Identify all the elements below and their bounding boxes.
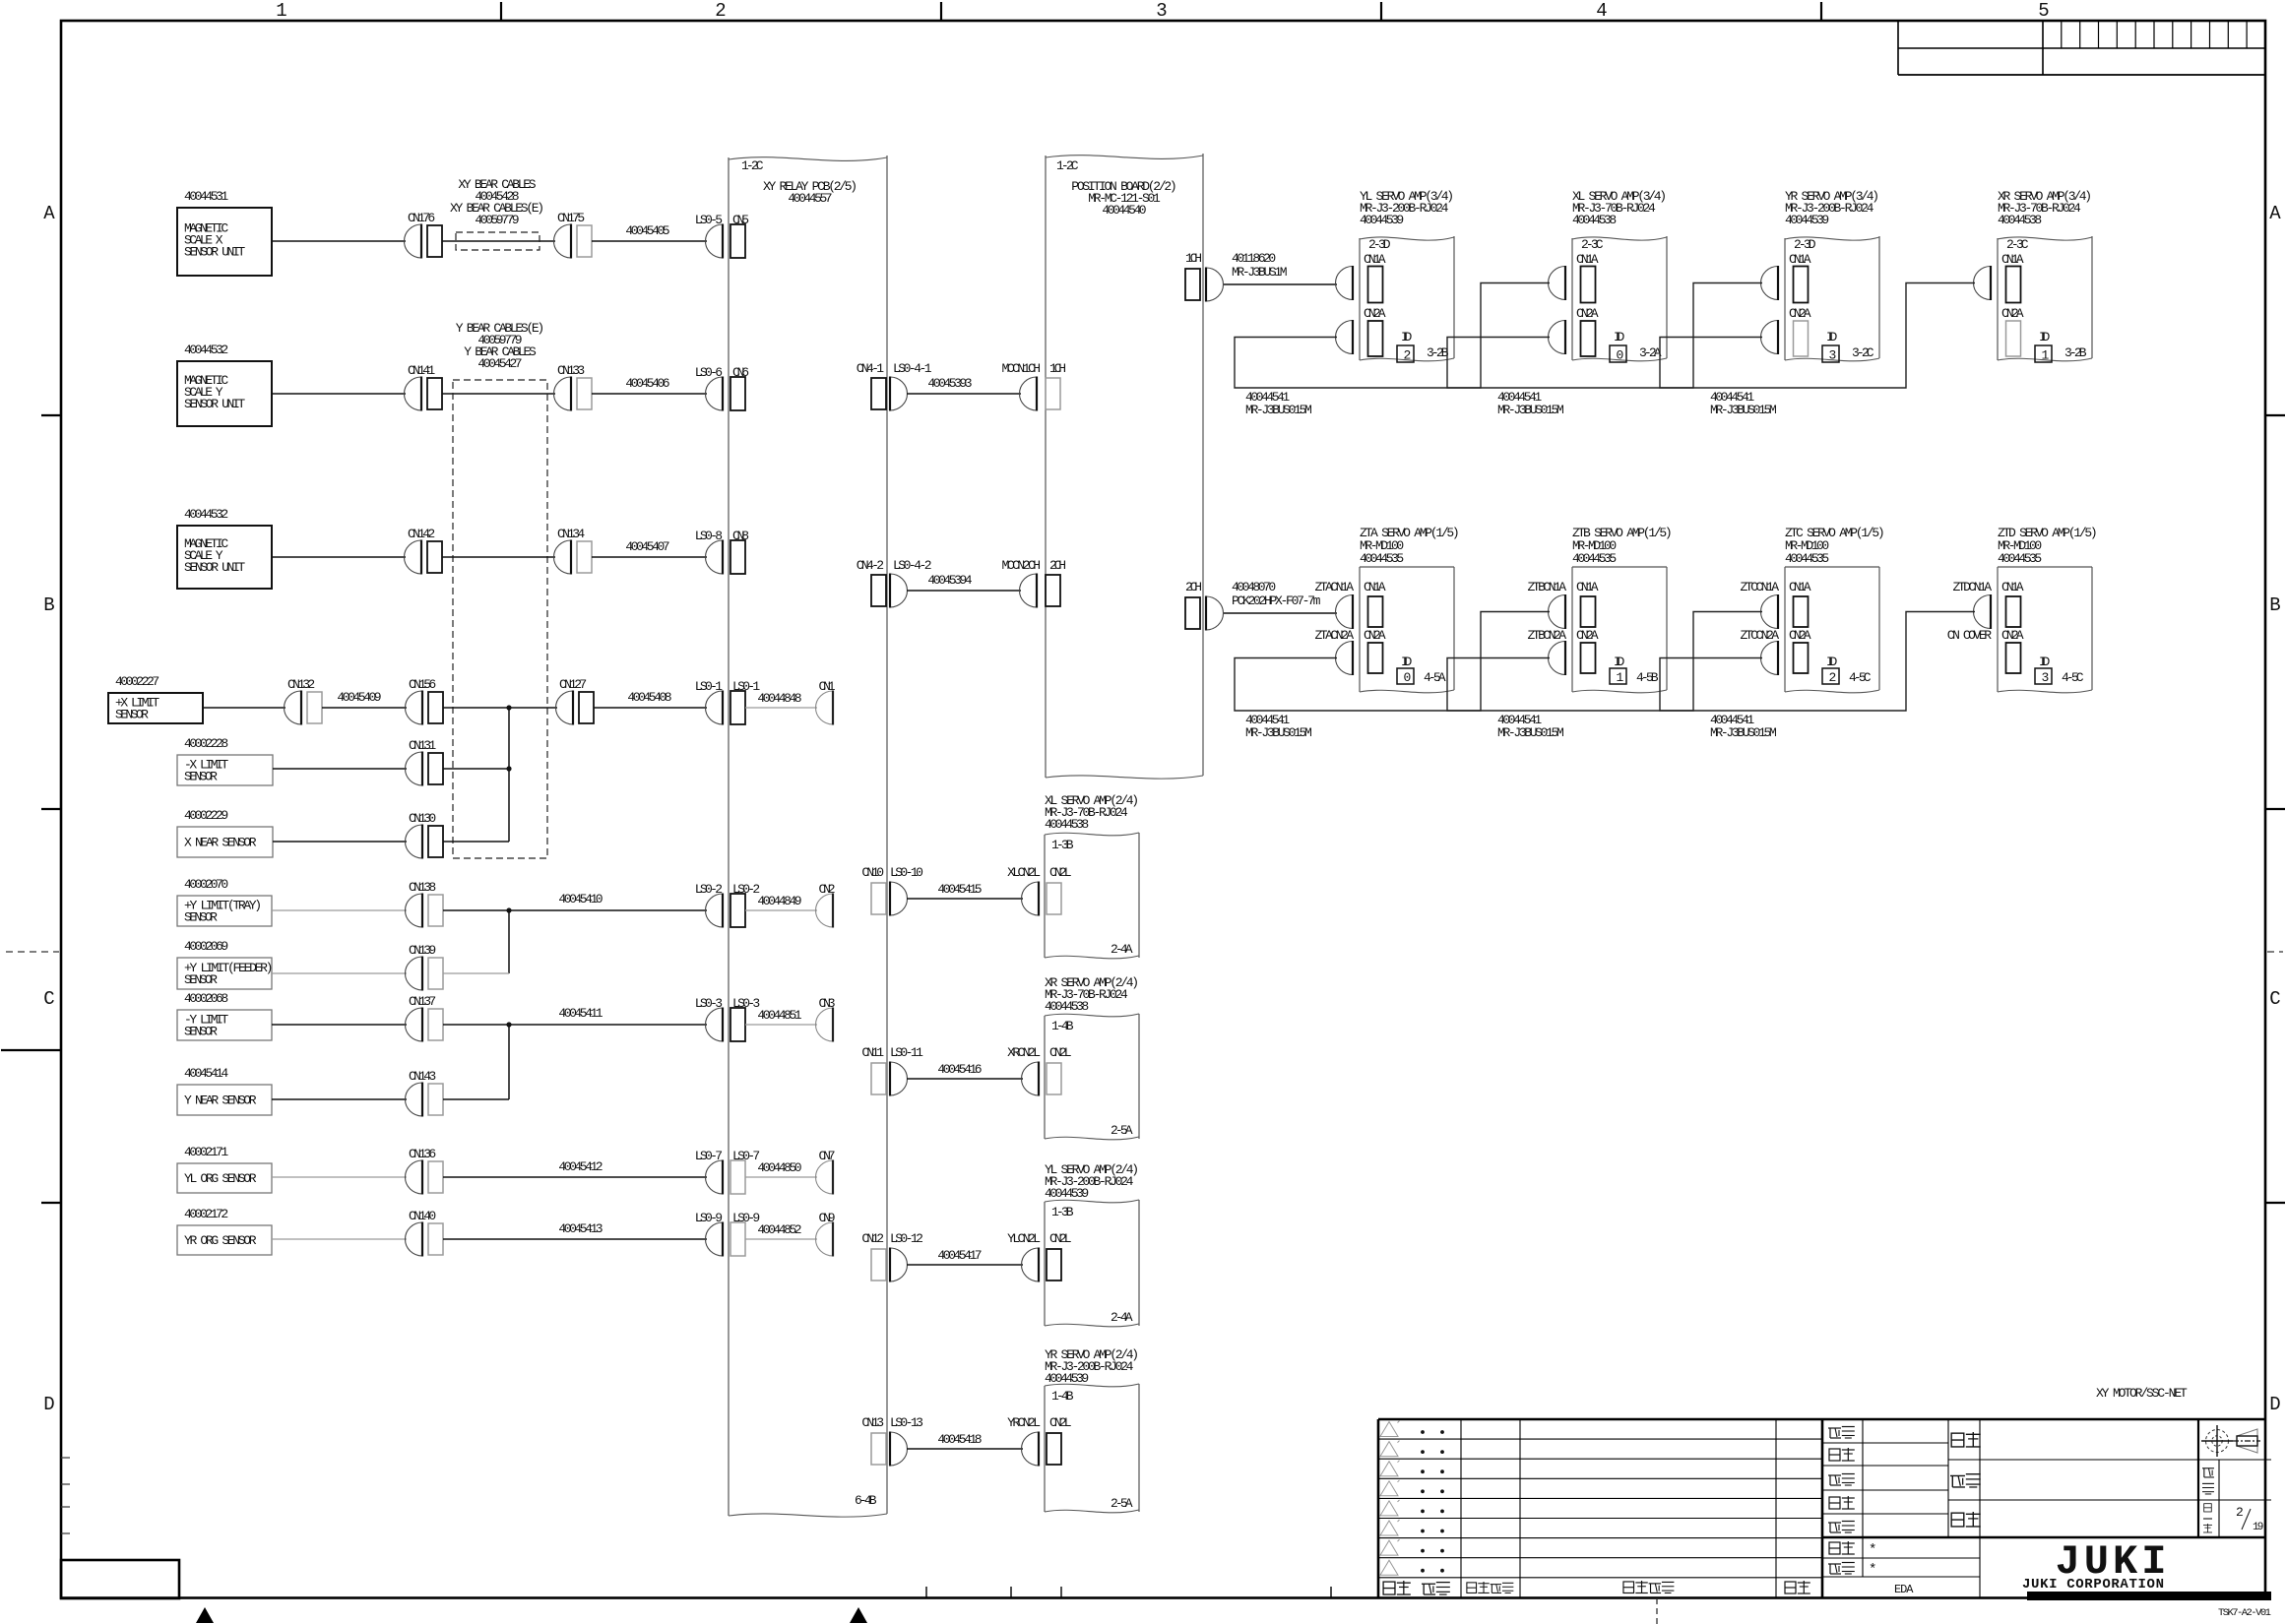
svg-text:D: D bbox=[2269, 1394, 2280, 1415]
svg-text:CN1A: CN1A bbox=[1364, 580, 1386, 594]
svg-text:LS0-4-2: LS0-4-2 bbox=[893, 558, 932, 573]
revision triangle row 2 bbox=[1380, 1442, 1398, 1457]
bottom fold dashed line bbox=[1656, 1598, 1658, 1624]
svg-text:3-2C: 3-2C bbox=[1852, 345, 1874, 360]
svg-text:40044538: 40044538 bbox=[1045, 817, 1089, 832]
svg-text:CN176: CN176 bbox=[408, 211, 435, 225]
svg-text:40045405: 40045405 bbox=[625, 223, 669, 238]
svg-text:C: C bbox=[43, 988, 54, 1010]
wire +Y feeder to CN139 bbox=[272, 972, 407, 974]
svg-text:40044539: 40044539 bbox=[1045, 1186, 1089, 1201]
wire scaleY to CN141 bbox=[272, 393, 406, 395]
svg-text:MR-J3BUS015M: MR-J3BUS015M bbox=[1497, 725, 1564, 740]
svg-text:40045393: 40045393 bbox=[927, 376, 972, 391]
svg-text:CN4-2: CN4-2 bbox=[857, 558, 884, 573]
svg-text:LS0-10: LS0-10 bbox=[890, 865, 923, 880]
svg-text:CN2L: CN2L bbox=[1049, 1045, 1072, 1060]
svg-text:CN2L: CN2L bbox=[1049, 865, 1072, 880]
svg-text:ID: ID bbox=[2039, 655, 2050, 669]
bottom centring triangle middle bbox=[850, 1607, 867, 1623]
svg-text:B: B bbox=[2269, 594, 2280, 616]
svg-text:CN139: CN139 bbox=[409, 943, 436, 958]
svg-text:ZTBCN1A: ZTBCN1A bbox=[1528, 580, 1567, 594]
svg-text:40044539: 40044539 bbox=[1360, 213, 1404, 227]
svg-text:40045415: 40045415 bbox=[937, 882, 982, 897]
svg-text:TSK7-A2-V01: TSK7-A2-V01 bbox=[2218, 1607, 2271, 1619]
junction -Y row bbox=[506, 1022, 511, 1027]
title block outline bbox=[1378, 1418, 2265, 1421]
revision triangle row 1 bbox=[1380, 1422, 1398, 1437]
svg-text:CN132: CN132 bbox=[287, 677, 315, 692]
svg-text:CN2L: CN2L bbox=[1049, 1231, 1072, 1246]
header henkou bangou bbox=[1467, 1583, 1477, 1593]
svg-text:CN142: CN142 bbox=[408, 527, 435, 541]
svg-text:40045412: 40045412 bbox=[558, 1159, 603, 1174]
wire LS0-1 to CN1 40044848 bbox=[745, 707, 817, 709]
svg-text:1CH: 1CH bbox=[1185, 251, 1202, 266]
wire CN141 to CN133 bbox=[442, 393, 555, 395]
svg-text:40045406: 40045406 bbox=[625, 376, 669, 391]
wire LS0-4-1 to MCCN1CH 40045393 bbox=[907, 393, 1021, 395]
svg-text:2-3D: 2-3D bbox=[1368, 237, 1391, 252]
top zone ticks bbox=[500, 2, 502, 21]
label katashiki bbox=[1951, 1433, 1964, 1447]
svg-text:CN10: CN10 bbox=[861, 865, 884, 880]
svg-text:CN1A: CN1A bbox=[1576, 252, 1599, 267]
wire +X limit to CN132 bbox=[203, 707, 286, 709]
page label peji bbox=[2204, 1504, 2212, 1512]
wire YR org to CN140 bbox=[272, 1238, 407, 1240]
svg-text:40044538: 40044538 bbox=[1045, 999, 1089, 1014]
svg-text:D: D bbox=[43, 1394, 54, 1415]
svg-text:40045407: 40045407 bbox=[625, 539, 669, 554]
bottom small ticks bbox=[925, 1587, 927, 1597]
svg-text:X NEAR SENSOR: X NEAR SENSOR bbox=[184, 836, 257, 850]
svg-text:YLCN2L: YLCN2L bbox=[1007, 1231, 1041, 1246]
svg-text:6-4B: 6-4B bbox=[855, 1493, 877, 1508]
approval row label 2 bbox=[1829, 1449, 1840, 1461]
wire YL org to CN136 bbox=[272, 1176, 407, 1178]
svg-text:40044535: 40044535 bbox=[1785, 551, 1829, 566]
svg-text:CN2A: CN2A bbox=[1576, 306, 1599, 321]
svg-text:SENSOR: SENSOR bbox=[184, 770, 218, 784]
svg-text:*: * bbox=[1869, 1562, 1876, 1578]
svg-text:MCCN1CH: MCCN1CH bbox=[1002, 361, 1042, 376]
svg-text:ZTBCN2A: ZTBCN2A bbox=[1528, 628, 1567, 643]
junction +Y row bbox=[506, 907, 511, 912]
svg-text:40045417: 40045417 bbox=[937, 1248, 982, 1263]
svg-text:40045410: 40045410 bbox=[558, 892, 603, 906]
JUKI black bar bbox=[2027, 1592, 2271, 1600]
svg-text:3-2B: 3-2B bbox=[2064, 345, 2087, 360]
info table katashiki/hinban/hinmei bbox=[1948, 1459, 2271, 1461]
svg-text:CN1A: CN1A bbox=[1789, 252, 1811, 267]
svg-text:LS0-11: LS0-11 bbox=[890, 1045, 923, 1060]
svg-text:4-5C: 4-5C bbox=[1849, 670, 1872, 685]
revision triangle row 7 bbox=[1380, 1540, 1398, 1555]
svg-text:40044557: 40044557 bbox=[788, 191, 832, 206]
svg-text:ID: ID bbox=[1826, 330, 1837, 344]
svg-text:CN134: CN134 bbox=[557, 527, 585, 541]
svg-text:0: 0 bbox=[1404, 670, 1412, 685]
svg-text:C: C bbox=[2269, 988, 2280, 1010]
panel XL SERVO AMP(2/4) bbox=[1045, 833, 1139, 836]
approval row label 6 bbox=[1829, 1542, 1840, 1554]
wire 1CH to YL CN1A 40118620 MR-J3BUS1M bbox=[1224, 283, 1337, 285]
wire CN142 to CN134 bbox=[442, 556, 555, 558]
svg-text:CN12: CN12 bbox=[861, 1231, 884, 1246]
divider scale labels bbox=[2218, 1460, 2220, 1537]
svg-text:40045416: 40045416 bbox=[937, 1062, 982, 1077]
wire LS0-2 to CN2 40044849 bbox=[745, 909, 817, 911]
svg-text:4-5B: 4-5B bbox=[1636, 670, 1659, 685]
svg-text:1: 1 bbox=[276, 0, 286, 22]
svg-text:ID: ID bbox=[1826, 655, 1837, 669]
wire -Y limit to CN137 bbox=[272, 1024, 407, 1026]
thick divider above hokan row bbox=[1822, 1536, 2265, 1538]
svg-text:Y NEAR SENSOR: Y NEAR SENSOR bbox=[184, 1093, 257, 1108]
svg-text:1-4B: 1-4B bbox=[1051, 1389, 1074, 1404]
left zone ticks bbox=[41, 414, 61, 416]
svg-text:CN2A: CN2A bbox=[1789, 306, 1811, 321]
svg-text:LS0-4-1: LS0-4-1 bbox=[893, 361, 932, 376]
divider after katashiki labels bbox=[1979, 1419, 1981, 1597]
svg-text:4-5C: 4-5C bbox=[2062, 670, 2084, 685]
svg-text:3: 3 bbox=[2042, 670, 2050, 685]
bus wire XL CN2A to YR CN1A 40044541 MR-J3BUS015M bbox=[1447, 283, 1762, 389]
dashed cable box XY BEAR CABLES bbox=[456, 232, 540, 250]
approval col divider bbox=[1862, 1419, 1864, 1577]
divider before scale cell bbox=[2197, 1419, 2199, 1537]
panel YL SERVO AMP(2/4) bbox=[1045, 1200, 1139, 1203]
svg-text:CN138: CN138 bbox=[409, 880, 436, 895]
approval table bbox=[1822, 1442, 1948, 1444]
svg-text:0: 0 bbox=[1617, 348, 1624, 363]
revision triangle row 5 bbox=[1380, 1501, 1398, 1516]
svg-text:2-4A: 2-4A bbox=[1111, 1310, 1133, 1325]
revision col divider 2 bbox=[1519, 1419, 1521, 1597]
svg-text:MR-J3BUS015M: MR-J3BUS015M bbox=[1710, 725, 1777, 740]
svg-text:40002229: 40002229 bbox=[184, 808, 228, 823]
svg-text:CN2A: CN2A bbox=[1789, 628, 1811, 643]
svg-text:40044535: 40044535 bbox=[1360, 551, 1404, 566]
svg-text:SENSOR UNIT: SENSOR UNIT bbox=[184, 245, 245, 260]
header hiduke bbox=[1422, 1584, 1435, 1594]
wire CN140 to LS0-9 40045413 bbox=[443, 1238, 707, 1240]
svg-text:CN2A: CN2A bbox=[1576, 628, 1599, 643]
bottom centring triangle left bbox=[196, 1607, 214, 1623]
svg-text:SENSOR: SENSOR bbox=[184, 972, 218, 987]
svg-text:YRCN2L: YRCN2L bbox=[1007, 1415, 1041, 1430]
svg-text:40002171: 40002171 bbox=[184, 1145, 228, 1159]
svg-text:CN131: CN131 bbox=[409, 738, 436, 753]
approval row label 4 bbox=[1829, 1497, 1840, 1509]
svg-text:4: 4 bbox=[1596, 0, 1607, 22]
svg-text:CN13: CN13 bbox=[861, 1415, 884, 1430]
svg-text:LS0-12: LS0-12 bbox=[890, 1231, 923, 1246]
approval row label 1 bbox=[1828, 1428, 1841, 1438]
svg-text:XY MOTOR/SSC-NET: XY MOTOR/SSC-NET bbox=[2096, 1386, 2188, 1401]
XY RELAY PCB panel bbox=[729, 157, 887, 161]
svg-text:40044532: 40044532 bbox=[184, 507, 228, 522]
svg-text:2-5A: 2-5A bbox=[1111, 1496, 1133, 1511]
svg-text:EDA: EDA bbox=[1894, 1583, 1914, 1596]
svg-text:40002228: 40002228 bbox=[184, 736, 228, 751]
wire CN130 to junction bbox=[443, 841, 509, 843]
svg-text:1-2C: 1-2C bbox=[741, 158, 764, 173]
revision col divider 1 bbox=[1460, 1419, 1462, 1597]
dashed cable box Y BEAR CABLES bbox=[453, 380, 547, 858]
revision triangle row 8 bbox=[1380, 1560, 1398, 1575]
wire CN127 to LS0-1 40045408 bbox=[594, 707, 707, 709]
svg-text:3: 3 bbox=[1829, 348, 1837, 363]
svg-text:YR ORG SENSOR: YR ORG SENSOR bbox=[184, 1233, 257, 1248]
svg-text:MR-J3BUS015M: MR-J3BUS015M bbox=[1710, 403, 1777, 417]
wire 2CH to ZTA CN1A 40048070 bbox=[1224, 612, 1337, 614]
left margin long mark bbox=[1, 1049, 61, 1051]
svg-text:40044539: 40044539 bbox=[1785, 213, 1829, 227]
vertical junction wire +Y rows bbox=[508, 910, 510, 973]
svg-text:ID: ID bbox=[2039, 330, 2050, 344]
wire CN137 to LS0-3 40045411 bbox=[443, 1024, 707, 1026]
svg-text:CN130: CN130 bbox=[409, 811, 436, 826]
svg-text:CN2A: CN2A bbox=[2001, 628, 2024, 643]
first angle projection symbol bbox=[2206, 1430, 2229, 1453]
left margin fold dashes bbox=[6, 951, 59, 953]
svg-text:XRCN2L: XRCN2L bbox=[1007, 1045, 1041, 1060]
svg-text:3: 3 bbox=[1156, 0, 1167, 22]
svg-text:40044531: 40044531 bbox=[184, 189, 228, 204]
svg-text:XLCN2L: XLCN2L bbox=[1007, 865, 1041, 880]
header henkou kiji bbox=[1623, 1582, 1634, 1593]
svg-text:1-3B: 1-3B bbox=[1051, 838, 1074, 852]
vertical junction wire X rows bbox=[508, 708, 510, 842]
svg-text:3-2A: 3-2A bbox=[1639, 345, 1662, 360]
POSITION BOARD panel bbox=[1046, 156, 1203, 159]
revision col divider 3 bbox=[1775, 1419, 1777, 1597]
svg-text:ZTCCN1A: ZTCCN1A bbox=[1741, 580, 1780, 594]
right zone ticks bbox=[2265, 414, 2285, 416]
bus wire ZTB CN2A to ZTC CN1A 40044541 MR-J3BUS015M bbox=[1447, 612, 1762, 712]
revision triangle row 4 bbox=[1380, 1481, 1398, 1496]
wire scaleX to CN176 bbox=[272, 240, 406, 242]
svg-text:CN11: CN11 bbox=[861, 1045, 884, 1060]
svg-text:40048070: 40048070 bbox=[1232, 580, 1276, 594]
wire LS0-12 to YLCN2L 40045417 bbox=[907, 1264, 1023, 1266]
svg-text:CN2A: CN2A bbox=[1364, 306, 1386, 321]
svg-text:*: * bbox=[1869, 1542, 1876, 1558]
svg-text:CN137: CN137 bbox=[409, 994, 436, 1009]
wire CN175 to LS0-5 40045405 bbox=[592, 240, 707, 242]
svg-text:SENSOR UNIT: SENSOR UNIT bbox=[184, 397, 245, 411]
svg-text:1: 1 bbox=[1617, 670, 1624, 685]
right margin fold dashes bbox=[2267, 951, 2283, 953]
bus wire YR CN2A to XR CN1A 40044541 MR-J3BUS015M bbox=[1660, 283, 1975, 389]
bus wire ZTC CN2A to ZTD CN1A 40044541 MR-J3BUS015M bbox=[1660, 612, 1975, 712]
wire LS0-13 to YRCN2L 40045418 bbox=[907, 1448, 1023, 1450]
wire CN138 to LS0-2 40045410 bbox=[443, 909, 707, 911]
svg-text:YL ORG SENSOR: YL ORG SENSOR bbox=[184, 1171, 257, 1186]
svg-text:2CH: 2CH bbox=[1185, 580, 1202, 594]
wire LS0-11 to XRCN2L 40045416 bbox=[907, 1078, 1023, 1080]
label hinmei bbox=[1951, 1513, 1964, 1527]
svg-text:LS0-13: LS0-13 bbox=[890, 1415, 923, 1430]
approval row label 3 bbox=[1828, 1475, 1841, 1485]
wire CN131 to junction bbox=[443, 768, 509, 770]
svg-text:40044532: 40044532 bbox=[184, 343, 228, 357]
svg-text:1-2C: 1-2C bbox=[1056, 158, 1079, 173]
svg-text:40044538: 40044538 bbox=[1998, 213, 2042, 227]
svg-text:ZTACN2A: ZTACN2A bbox=[1315, 628, 1355, 643]
svg-text:CN127: CN127 bbox=[559, 677, 587, 692]
svg-text:40044851: 40044851 bbox=[757, 1008, 801, 1023]
vertical junction wire Y rows bbox=[508, 1025, 510, 1099]
svg-text:40044852: 40044852 bbox=[757, 1222, 801, 1237]
svg-text:CN COVER: CN COVER bbox=[1947, 628, 1992, 643]
svg-text:MR-J3BUS015M: MR-J3BUS015M bbox=[1245, 403, 1312, 417]
svg-text:40045427: 40045427 bbox=[477, 356, 522, 371]
svg-text:B: B bbox=[43, 594, 54, 616]
label hinban bbox=[1950, 1475, 1965, 1487]
svg-text:CN1A: CN1A bbox=[1364, 252, 1386, 267]
svg-text:CN140: CN140 bbox=[409, 1209, 436, 1223]
wire LS0-10 to XLCN2L 40045415 bbox=[907, 898, 1023, 900]
svg-text:ID: ID bbox=[1401, 330, 1412, 344]
svg-text:CN1A: CN1A bbox=[1789, 580, 1811, 594]
svg-text:2-5A: 2-5A bbox=[1111, 1123, 1133, 1138]
svg-text:2CH: 2CH bbox=[1049, 558, 1066, 573]
svg-text:40044535: 40044535 bbox=[1998, 551, 2042, 566]
wire CN139 to junction bbox=[443, 972, 509, 974]
svg-text:2-3D: 2-3D bbox=[1794, 237, 1816, 252]
svg-text:CN156: CN156 bbox=[409, 677, 436, 692]
approval row label 5 bbox=[1828, 1523, 1841, 1532]
svg-text:PCK202HPX-F07-7m: PCK202HPX-F07-7m bbox=[1232, 593, 1321, 608]
svg-text:1-4B: 1-4B bbox=[1051, 1019, 1074, 1033]
svg-text:CN175: CN175 bbox=[557, 211, 585, 225]
svg-text:2: 2 bbox=[1404, 348, 1412, 363]
svg-text:2-4A: 2-4A bbox=[1111, 942, 1133, 957]
svg-text:MR-J3BUS015M: MR-J3BUS015M bbox=[1497, 403, 1564, 417]
wire CN176 to CN175 bbox=[442, 240, 555, 242]
svg-text:A: A bbox=[43, 203, 55, 224]
wire scaleY2 to CN142 bbox=[272, 556, 406, 558]
svg-text:CN1A: CN1A bbox=[2001, 252, 2024, 267]
wire CN156 to CN127 bbox=[443, 707, 557, 709]
junction -X row bbox=[506, 766, 511, 771]
wire LS0-7 to CN7 40044850 bbox=[745, 1176, 817, 1178]
wire LS0-3 to CN3 40044851 bbox=[745, 1024, 817, 1026]
svg-text:ID: ID bbox=[1614, 655, 1624, 669]
svg-text:40045409: 40045409 bbox=[337, 690, 381, 705]
projection cone symbol bbox=[2233, 1440, 2260, 1442]
svg-text:ID: ID bbox=[1614, 330, 1624, 344]
wire CN133 to LS0-6 40045406 bbox=[592, 393, 707, 395]
svg-text:SENSOR: SENSOR bbox=[115, 708, 149, 722]
svg-text:CN4-1: CN4-1 bbox=[857, 361, 884, 376]
svg-text:ID: ID bbox=[1401, 655, 1412, 669]
svg-text:CN141: CN141 bbox=[408, 363, 435, 378]
svg-text:2: 2 bbox=[2236, 1505, 2244, 1520]
left margin mini ruler ticks bbox=[61, 1457, 70, 1459]
svg-text:CN2A: CN2A bbox=[2001, 306, 2024, 321]
svg-text:2-3C: 2-3C bbox=[1581, 237, 1604, 252]
svg-text:40045418: 40045418 bbox=[937, 1432, 982, 1447]
approval row label 7 bbox=[1828, 1564, 1841, 1574]
svg-text:2: 2 bbox=[715, 0, 726, 22]
svg-text:CN143: CN143 bbox=[409, 1069, 436, 1084]
svg-text:A: A bbox=[2269, 203, 2281, 224]
revision table rows bbox=[1378, 1438, 1822, 1440]
svg-text:40045394: 40045394 bbox=[927, 573, 972, 588]
svg-text:40044535: 40044535 bbox=[1572, 551, 1617, 566]
wire -X limit to CN131 bbox=[273, 768, 407, 770]
svg-text:40045408: 40045408 bbox=[627, 690, 671, 705]
svg-text:CN1A: CN1A bbox=[1576, 580, 1599, 594]
panel YR SERVO AMP(2/4) bbox=[1045, 1384, 1139, 1387]
wire +Y tray to CN138 bbox=[272, 909, 407, 911]
svg-text:4-5A: 4-5A bbox=[1424, 670, 1446, 685]
svg-text:ZTACN1A: ZTACN1A bbox=[1315, 580, 1355, 594]
svg-text:CN136: CN136 bbox=[409, 1147, 436, 1161]
svg-text:SENSOR: SENSOR bbox=[184, 1025, 218, 1039]
bus wire YL CN2A to XL CN1A 40044541 MR-J3BUS015M bbox=[1235, 283, 1550, 389]
svg-text:40002070: 40002070 bbox=[184, 877, 228, 892]
svg-text:40002227: 40002227 bbox=[115, 674, 159, 689]
svg-text:CN2A: CN2A bbox=[1364, 628, 1386, 643]
top-right revision strip table bbox=[1897, 21, 1899, 75]
svg-text:40002069: 40002069 bbox=[184, 939, 228, 954]
svg-text:MCCN2CH: MCCN2CH bbox=[1002, 558, 1042, 573]
svg-text:19: 19 bbox=[2253, 1522, 2263, 1533]
revision triangle row 3 bbox=[1380, 1462, 1398, 1476]
svg-text:40044538: 40044538 bbox=[1572, 213, 1617, 227]
svg-text:40044540: 40044540 bbox=[1102, 203, 1146, 218]
svg-text:SENSOR: SENSOR bbox=[184, 910, 218, 925]
wire CN136 to LS0-7 40045412 bbox=[443, 1176, 707, 1178]
svg-text:5: 5 bbox=[2038, 0, 2049, 22]
svg-text:2: 2 bbox=[1829, 670, 1837, 685]
svg-text:40118620: 40118620 bbox=[1232, 251, 1276, 266]
svg-text:40059779: 40059779 bbox=[475, 213, 519, 227]
svg-text:JUKI CORPORATION: JUKI CORPORATION bbox=[2022, 1577, 2164, 1593]
header kigou bbox=[1383, 1582, 1395, 1594]
svg-text:40002068: 40002068 bbox=[184, 991, 228, 1006]
panel XR SERVO AMP(2/4) bbox=[1045, 1014, 1139, 1017]
revision triangle row 6 bbox=[1380, 1521, 1398, 1535]
svg-text:40045413: 40045413 bbox=[558, 1221, 603, 1236]
svg-text:40044539: 40044539 bbox=[1045, 1371, 1089, 1386]
bottom-left stamp box bbox=[61, 1560, 179, 1598]
wire LS0-4-2 to MCCN2CH 40045394 bbox=[907, 590, 1021, 592]
svg-text:40045414: 40045414 bbox=[184, 1066, 228, 1081]
svg-text:40044850: 40044850 bbox=[757, 1160, 801, 1175]
svg-text:MR-J3BUS015M: MR-J3BUS015M bbox=[1245, 725, 1312, 740]
wire CN132 to CN156 bbox=[322, 707, 407, 709]
svg-text:CN1A: CN1A bbox=[2001, 580, 2024, 594]
wire CN143 to junction bbox=[443, 1098, 509, 1100]
svg-text:40044848: 40044848 bbox=[757, 691, 801, 706]
svg-text:3-2B: 3-2B bbox=[1427, 345, 1449, 360]
scale label shakudo bbox=[2202, 1468, 2214, 1477]
wire CN134 to LS0-8 40045407 bbox=[592, 556, 707, 558]
svg-text:SENSOR UNIT: SENSOR UNIT bbox=[184, 560, 245, 575]
svg-text:40044849: 40044849 bbox=[757, 894, 801, 908]
svg-text:40045411: 40045411 bbox=[558, 1006, 603, 1021]
svg-text:ZTCCN2A: ZTCCN2A bbox=[1741, 628, 1780, 643]
svg-text:ZTDCN1A: ZTDCN1A bbox=[1953, 580, 1993, 594]
svg-text:CN2L: CN2L bbox=[1049, 1415, 1072, 1430]
